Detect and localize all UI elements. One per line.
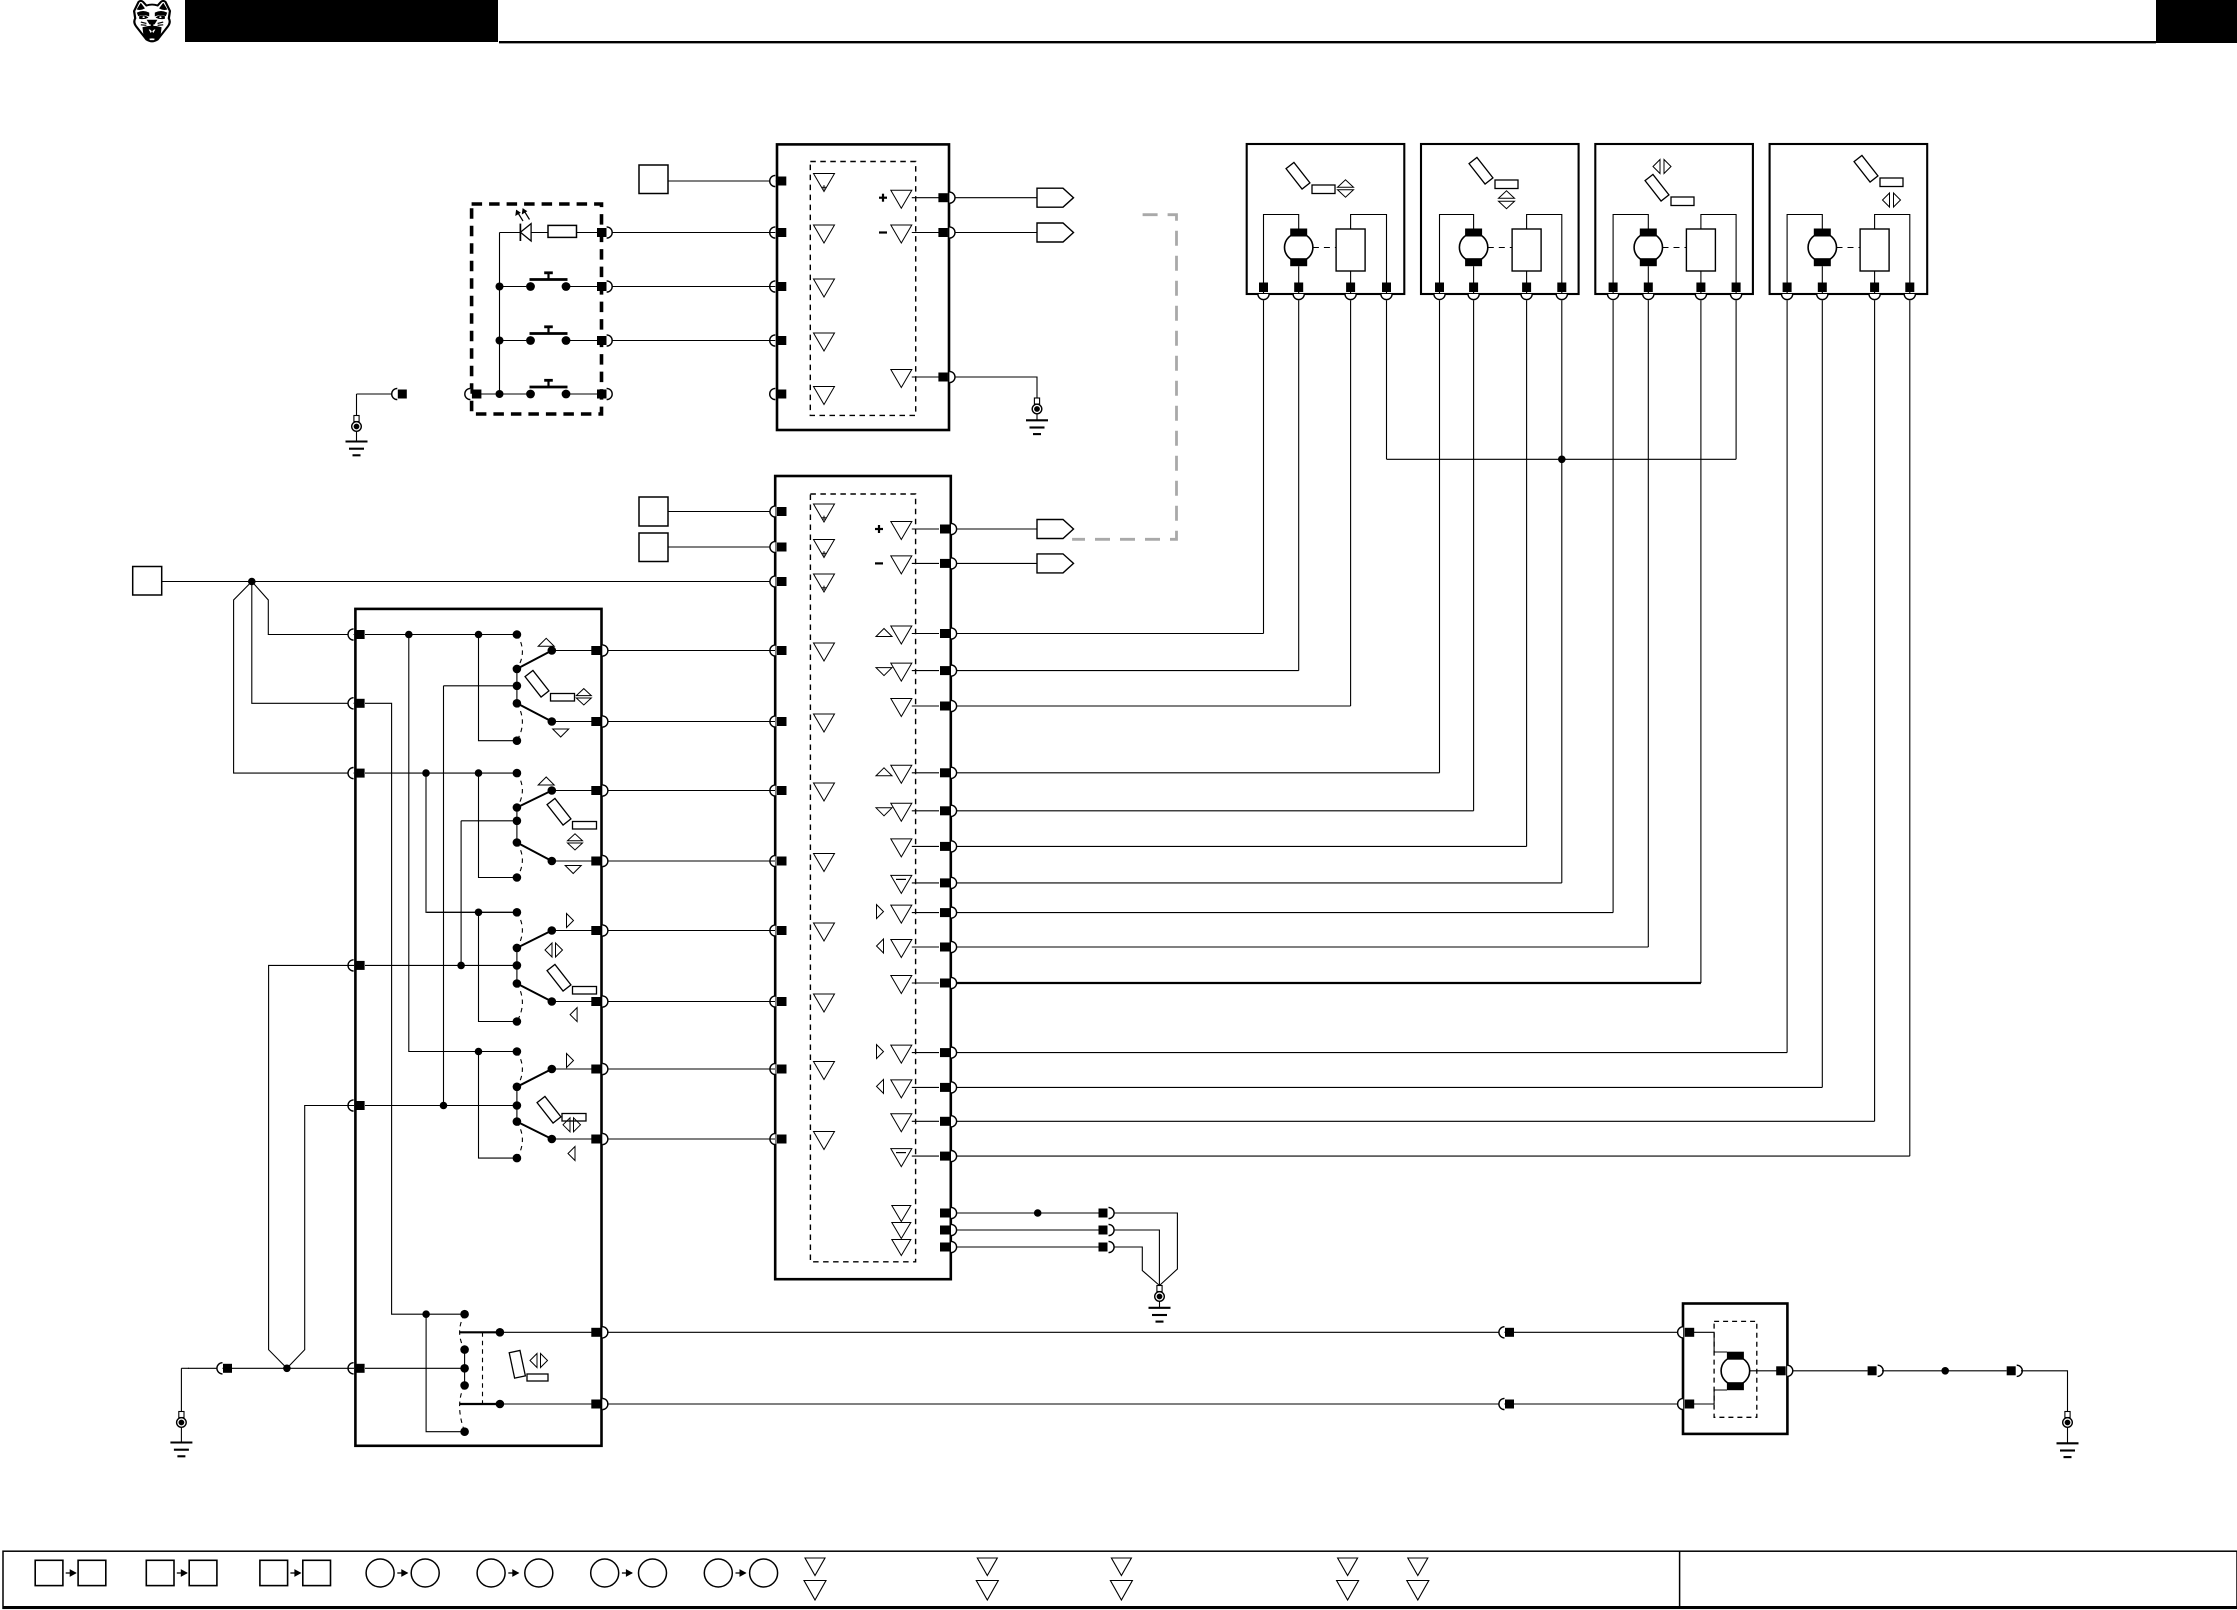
wire | track motor common [957,1120,1875,1122]
cushion front motor assembly pin 3 [1521,294,1532,300]
module1 + output cavity [891,190,912,208]
module1 left pin 4 [770,335,776,346]
switchpack left pin 5 [348,1100,354,1111]
module1 input cavity 4 [814,333,835,351]
wire [1114,1247,1160,1286]
seat module inner (dashed) [810,494,915,1262]
memory switch pack (dashed outline) [472,204,602,414]
wire | switch to module2 [607,790,775,792]
lumbar wires | left [607,1331,1683,1333]
inline connector [1099,1209,1108,1218]
wire | motor + feed [1613,215,1648,294]
arrow left [570,1008,577,1022]
node | feed split [248,578,256,586]
inline connector [2007,1366,2016,1375]
wire | recline motor common [957,982,1701,984]
module2 output cavity (track back) [877,1079,884,1093]
wire | pack to module1 [613,286,776,288]
module1 input cavity 5 [814,387,835,405]
inter-module link (grey dashed) [1072,215,1176,540]
arrow pair [545,943,552,957]
recline motor assembly pin 2 [1643,294,1654,300]
wire | recline back [957,946,1648,948]
track motor assembly pin 2 [1817,294,1828,300]
cushion front motor assembly pin 2 [1468,294,1479,300]
pushbutton switch (memory set) + feed-through row [500,393,527,395]
recline motor assembly pin 4 [1731,294,1742,300]
module2 pin (cushion front down) [940,806,950,815]
wire | ground bus [188,1367,354,1369]
lumbar module right pin [1776,1366,1786,1375]
arrow pair [1499,191,1515,199]
arrow up [538,777,554,785]
wire | cluster1 feed to cluster4 [409,635,517,1052]
cushion rear motor assembly pin 2 [1293,294,1304,300]
module2 sensor return cavity 3 [892,1240,911,1256]
wire [577,232,598,234]
wire [1750,1370,1777,1372]
switchpack right pin 3 [591,786,601,795]
legend: cavity pair (triangles) [1338,1558,1358,1576]
wire | pin2 feed to lumbar [365,703,465,1314]
motor M [1459,233,1487,261]
module1 left pin 5 [770,388,776,399]
module2 pin (track back) [940,1083,950,1092]
wire | feed to module2 pin3 [162,581,775,583]
input connector square S1 [639,165,668,194]
LED indicator [500,232,521,234]
cushion rear motor assembly pin 4 [1381,294,1392,300]
module2 input cavity 7 [814,854,835,872]
wire [668,546,775,548]
legend divider [1679,1551,1681,1608]
module2 input cavity 5 [814,714,835,732]
module2 input cavity 3 [814,574,835,592]
module2 pin (track motor common) [940,1117,950,1126]
switch cluster: lumbar [422,1310,430,1318]
switchpack left pin 2 [348,698,354,709]
module2 sensor return cavity 1 [892,1206,911,1222]
wire | pin5 feed to cluster1 mid [443,686,445,1106]
module1 - pin [938,228,948,237]
wire | cushion rear motor common [957,705,1351,707]
output arrow (- feed) [1037,223,1074,242]
module2 pin (sensor return 1) [940,1209,950,1218]
module2 left pin 6 [770,785,776,796]
wire | track back [957,1086,1822,1088]
module2 output cavity (recline motor common) [891,976,912,994]
wire | cushion rear up [957,633,1264,635]
wire [668,511,775,513]
recline motor assembly box [1595,144,1753,294]
wire | switch to module2 [607,721,775,723]
module2 input cavity 2 [814,540,835,558]
node [1034,1209,1042,1217]
wire | cushion front motor common [957,845,1527,847]
output arrow (+ feed) [1037,188,1074,207]
position sensor [1512,229,1541,271]
module2 pin (recline back) [940,943,950,952]
module2 output cavity (cushion front down) [876,808,892,816]
motor M [1808,233,1836,261]
wire | cushion front sensor [957,882,1562,884]
legend: cavity pair (triangles) [805,1558,825,1576]
inline connector [1499,1327,1505,1338]
switch cluster: track [410,1051,517,1053]
ground G4 [2065,1412,2070,1418]
header rule [499,41,2156,43]
module2 input cavity 10 [814,1062,835,1080]
module2 output cavity (recline back) [877,939,884,953]
seat icon (cushion rear) [1286,162,1310,189]
wire | branch to switch pin1 [252,582,354,635]
module1 + pin [938,193,948,202]
wire | switch pin5 to ground [287,1106,354,1369]
module1 ground pin [938,373,948,382]
switchpack left pin 6 [348,1363,354,1374]
wire | switch to module2 [607,1001,775,1003]
module1 - output cavity [891,225,912,243]
module2 output cavity (cushion rear down) [876,668,892,676]
arrow down [565,866,581,874]
position sensor [1336,229,1365,271]
wire | track fwd [957,1052,1787,1054]
wire | switch to module2 [607,1068,775,1070]
wire | recline fwd [957,912,1613,914]
output arrow (- to motors) [1037,554,1074,573]
module2 pin (recline motor common) [940,979,950,988]
mechanical link (dashed) [482,1332,484,1404]
module2 left pin 4 [770,645,776,656]
node [440,1102,448,1110]
lumbar module left pin 1 [1678,1327,1684,1338]
module2 input cavity 1 [814,504,835,522]
track motor assembly pin 1 [1782,294,1793,300]
cushion rear motor assembly pin 3 [1345,294,1356,300]
arrow down [553,729,569,737]
module2 pin (sensor return 3) [940,1243,950,1252]
wire | pack to module1 [613,340,776,342]
legend: cavity pair (triangles) [1408,1558,1428,1576]
track motor assembly pin 4 [1904,294,1915,300]
wire | sensor return 1 [957,1212,1099,1214]
wire | sensor common bus [1387,458,1737,460]
seat icon (track) [1854,155,1878,182]
module1 input cavity 2 [814,225,835,243]
legend frame [3,1551,2237,1608]
lumbar motor M [1721,1357,1750,1386]
wire | branch to switch pin3 [234,582,354,774]
arrow pair [568,834,583,841]
sensor drive link (dashed) [1488,247,1512,249]
switchpack right pin 7 [591,1065,601,1074]
input connector square S3 [639,533,668,562]
module2 output cavity (cushion front sensor) [891,875,912,893]
wire | switch to module2 [607,930,775,932]
wire [955,377,1037,398]
module2 left pin 11 [770,1133,776,1144]
module1 ground cavity [891,370,912,388]
wire | cushion rear down [957,670,1299,672]
inline connector [1868,1366,1877,1375]
legend: connector pair (squares) [35,1560,63,1585]
wire [2021,1371,2068,1412]
module2 pin (track fwd) [940,1048,950,1057]
wire | switch pin4 to ground [269,965,354,1368]
module2 pin (sensor return 2) [940,1226,950,1235]
node [1941,1367,1949,1375]
position sensor [1860,229,1889,271]
wire [1114,1230,1160,1286]
legend: cavity pair (triangles) [977,1558,997,1576]
module2 pin (cushion front motor common) [940,842,950,851]
door module box [777,144,949,430]
module2 left pin 5 [770,716,776,727]
arrow pair [563,1118,570,1132]
Jaguar growler logo [134,1,170,41]
wire | track sensor [957,1155,1910,1157]
module2 pin (cushion rear up) [940,629,950,638]
wire [1735,300,1737,459]
output arrow (+ to motors) [1037,520,1074,539]
wire [668,180,775,182]
inline connector [1499,1398,1505,1409]
wire [955,197,1037,199]
lumbar motor box [1683,1304,1787,1434]
module2 pin (track sensor) [940,1152,950,1161]
wire [1114,1213,1178,1286]
module2 left pin 10 [770,1063,776,1074]
ground G3 [1157,1286,1162,1292]
seat icon (cushion front) [1469,157,1493,184]
wire | branch to switch pin2 [252,582,354,704]
module1 left pin 1 [770,175,776,186]
position sensor [1686,229,1715,271]
seat icon (recline) [547,964,571,991]
seat switchpack box [355,609,601,1446]
cushion front motor assembly pin 4 [1556,294,1567,300]
wire | switch to module2 [607,650,775,652]
ground G2 [1034,398,1039,404]
arrow pair [1653,160,1660,174]
wire [957,562,1037,564]
inline connector [1099,1226,1108,1235]
recline motor assembly pin 3 [1695,294,1706,300]
wire | motor + feed [1440,215,1474,294]
switchpack right pin 2 [591,717,601,726]
module2 left pin 9 [770,996,776,1007]
switchpack left pin 4 [348,960,354,971]
wire | pack to module1 [613,232,776,234]
recline motor assembly pin 1 [1608,294,1619,300]
module2 + output cavity [891,522,912,540]
cushion rear motor assembly pin 1 [1258,294,1269,300]
module2 input cavity 11 [814,1132,835,1150]
switchpack right pin 9 [591,1328,601,1337]
module2 output cavity (cushion rear up) [876,629,892,637]
module2 output cavity (cushion front motor common) [891,839,912,857]
cushion rear motor assembly box [1247,144,1405,294]
module1 left pin 3 [770,281,776,292]
wire [180,1368,182,1411]
seat module box [775,476,951,1279]
seat icon (lumbar) [509,1350,525,1378]
module2 - output cavity [891,556,912,574]
switchpack right pin 1 [591,646,601,655]
switch cluster: recline [427,911,517,913]
seat icon (recline) [1645,174,1669,201]
cushion front motor assembly box [1421,144,1579,294]
switchpack right pin 6 [591,997,601,1006]
module1 left pin 2 [770,227,776,238]
switchpack right pin 10 [591,1400,601,1409]
wire | cushion front up [957,772,1440,774]
module2 - pin [940,559,950,568]
switchpack right pin 4 [591,857,601,866]
node [457,962,465,970]
seat icon (cushion rear) [525,670,549,697]
wire | motor + feed [1264,215,1299,294]
pushbutton switch (memory 1) [500,286,527,288]
wire | pin4 feed to cluster2 mid [460,821,462,966]
wire | cluster2 feed to cluster3 [426,773,517,912]
module2 input cavity 4 [814,643,835,661]
legend: connector pair (squares) [260,1560,288,1585]
wire | sensor return 3 [957,1246,1099,1248]
module1 input cavity 3 [814,279,835,297]
wire | lumbar return [1793,1370,1868,1372]
arrow left [568,1147,575,1161]
title bar (black) [185,0,498,42]
module2 pin (recline fwd) [940,908,950,917]
module2 left pin 1 [770,506,776,517]
module2 pin (cushion front sensor) [940,878,950,887]
page number box (black) [2156,0,2237,43]
door module inner (dashed) [810,162,915,416]
input connector square S4 [133,567,162,596]
module2 left pin 8 [770,925,776,936]
module2 input cavity 8 [814,923,835,941]
pin [597,228,607,237]
module2 output cavity (track motor common) [891,1114,912,1132]
module1 input cavity 1 [814,174,835,192]
pushbutton switch (memory 2) [500,340,527,342]
sensor drive link (dashed) [1663,247,1687,249]
inline connector [1099,1243,1108,1252]
seat icon (track) [537,1096,561,1123]
legend: splice pair (circles) [366,1559,394,1587]
motor M [1634,233,1662,261]
resistor (ballast) [548,225,577,237]
node [283,1365,291,1373]
legend: splice pair (circles) [477,1559,505,1587]
wire | pack feed from ground [357,393,397,395]
arrow right [567,914,574,928]
wire | motor + feed [1787,215,1822,294]
track motor assembly box [1770,144,1928,294]
arrow pair [1883,193,1890,207]
node [1558,456,1566,464]
wire | switch to module2 [607,860,775,862]
inline connector [392,388,398,399]
track motor assembly pin 3 [1869,294,1880,300]
wire | switch to module2 [607,1138,775,1140]
legend: splice pair (circles) [704,1559,732,1587]
wire [1692,1390,1727,1404]
module2 output cavity (cushion rear motor common) [891,699,912,717]
module2 pin (cushion rear motor common) [940,702,950,711]
legend: cavity pair (triangles) [1111,1558,1131,1576]
module2 input cavity 6 [814,783,835,801]
wire [1882,1370,2007,1372]
switchpack left pin 1 [348,629,354,640]
module2 + pin [940,525,950,534]
legend: connector pair (squares) [146,1560,174,1585]
lumbar module left pin 2 [1678,1398,1684,1409]
inline connector [217,1363,223,1374]
switch cluster: cushion rear height [365,634,517,636]
seat icon (cushion front) [547,798,571,825]
module2 output cavity (recline fwd) [877,905,884,919]
wire | sensor return 2 [957,1229,1099,1231]
module2 left pin 3 [770,576,776,587]
module2 output cavity (cushion front up) [876,768,892,776]
arrow pair [1338,180,1354,188]
ground G1 [354,416,359,422]
module2 pin (cushion front up) [940,768,950,777]
arrow up [538,638,554,646]
legend: splice pair (circles) [591,1559,619,1587]
wire [957,528,1037,530]
wire [955,232,1037,234]
module2 input cavity 9 [814,994,835,1012]
input connector square S2 [639,497,668,526]
module2 output cavity (track fwd) [877,1045,884,1059]
arrow pair [530,1354,537,1368]
wire [1692,1332,1727,1352]
lumbar motor inner (dashed) [1714,1321,1757,1417]
wire [1386,300,1388,459]
switchpack left pin 3 [348,768,354,779]
switch cluster: cushion front height [365,772,517,774]
motor M [1285,233,1313,261]
wire | LED feed vertical [499,233,501,395]
wire | cushion front down [957,810,1474,812]
arrow right [567,1054,574,1068]
module2 output cavity (track sensor) [891,1149,912,1167]
module2 left pin 2 [770,541,776,552]
ground G5 [179,1412,184,1418]
sensor drive link (dashed) [1313,247,1336,249]
switchpack right pin 8 [591,1135,601,1144]
module2 sensor return cavity 2 [892,1223,911,1239]
module2 left pin 7 [770,855,776,866]
switchpack right pin 5 [591,926,601,935]
cushion front motor assembly pin 1 [1434,294,1445,300]
arrow pair [576,689,591,696]
sensor drive link (dashed) [1837,247,1861,249]
module2 pin (cushion rear down) [940,666,950,675]
